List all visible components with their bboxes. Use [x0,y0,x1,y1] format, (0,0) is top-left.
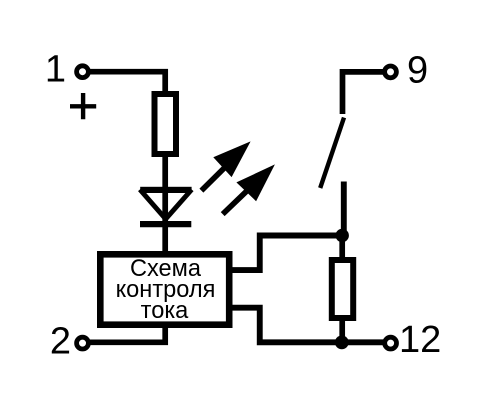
resistor R1 [155,94,177,154]
svg-text:1: 1 [45,49,66,91]
control box U1 [100,254,229,324]
wire terminal1 to R1 [90,72,165,92]
resistor R2 [332,260,353,318]
terminal 9 [385,66,397,78]
terminal 1 [77,66,89,78]
terminal 12 [385,337,397,349]
wire lower stub from box to node B and terminal 12 [230,308,384,343]
switch lower contact [341,182,347,233]
wire R2 to node B [339,316,345,343]
LED D1 triangle [140,187,191,193]
node B junction dot [335,336,349,350]
terminal 2 [77,337,89,349]
plus polarity mark [70,93,96,119]
svg-text:9: 9 [407,50,428,92]
svg-text:12: 12 [399,319,441,361]
wire node A to R2 [339,230,345,259]
wire terminal 9 to switch [343,72,384,114]
svg-text:тока: тока [141,298,190,324]
node A junction dot [336,229,349,242]
wire control box to terminal 2 [90,325,165,342]
wire R1 through LED to control box [162,156,168,252]
LED D1 cathode bar [140,221,191,227]
light arrow 2 [223,190,248,214]
svg-text:2: 2 [50,321,71,363]
switch blade S1 [320,118,344,188]
light arrow 1 [201,168,224,190]
wire upper stub from box to node A [230,236,342,271]
